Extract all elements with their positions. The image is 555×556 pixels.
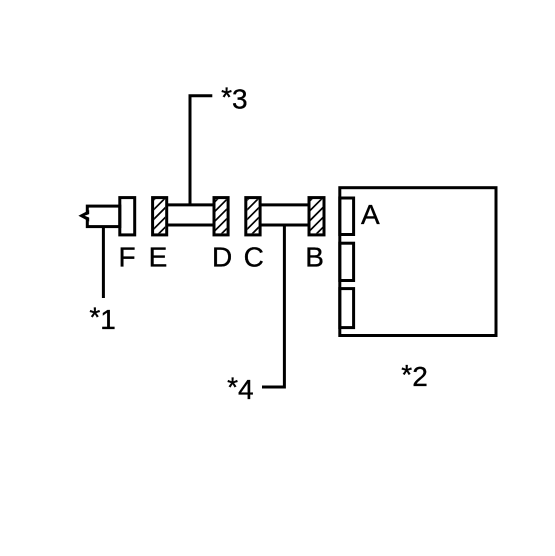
svg-text:C: C — [244, 241, 264, 272]
svg-text:*4: *4 — [227, 372, 253, 405]
svg-text:*2: *2 — [401, 359, 427, 392]
svg-text:E: E — [149, 241, 168, 272]
svg-text:A: A — [361, 199, 380, 230]
svg-text:F: F — [119, 241, 136, 272]
svg-text:B: B — [305, 241, 324, 272]
svg-text:*1: *1 — [89, 302, 115, 335]
svg-text:*3: *3 — [221, 81, 247, 114]
svg-text:D: D — [212, 241, 232, 272]
